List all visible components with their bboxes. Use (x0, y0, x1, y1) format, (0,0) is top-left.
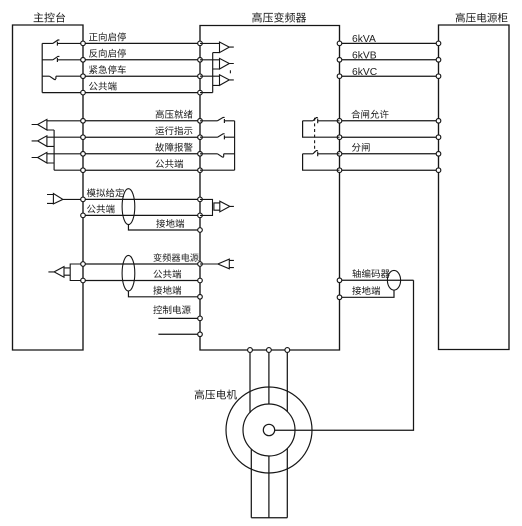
three-phase wire U (249, 350, 251, 413)
wire common to opto return bus (200, 92, 213, 94)
wire 高压就绪 inverter to console (83, 120, 200, 122)
wire common to relay bus (200, 169, 235, 171)
relay contact 高压就绪 (200, 117, 235, 123)
three-phase wire W (286, 350, 288, 412)
label 模拟给定 (87, 188, 124, 197)
node 运行指示 at inverter edge (198, 135, 203, 140)
label 运行指示 (155, 126, 192, 135)
interlock loop 2 (303, 154, 340, 170)
node 反向启停 at inverter edge (198, 58, 203, 63)
wire common 公共端 inside console (42, 92, 83, 94)
wire interlock row y=153.8 (340, 153, 439, 155)
node 6kVB cabinet (436, 58, 441, 63)
wire 紧急停车 console to inverter (83, 75, 200, 77)
wire 轴编码器 (340, 279, 414, 281)
label 高压变频器 (252, 12, 306, 22)
opto receiver triangle row2 (200, 58, 234, 69)
console bus for start/stop contacts (41, 43, 43, 92)
node 公共端 at console edge (81, 168, 86, 173)
label 合闸允许 (351, 110, 388, 119)
label 分闸 (352, 143, 370, 152)
node interlock cabinet y=153.8 (436, 152, 441, 157)
contact switch for 正向启停 (42, 40, 83, 46)
label 故障报警 (155, 143, 192, 152)
shield oval encoder cable (387, 270, 400, 290)
shield drain wire to ground (128, 224, 200, 230)
node 模拟给定 console (81, 197, 86, 202)
node 公共端 analog inverter (198, 213, 203, 218)
node 接地端 power (198, 295, 203, 300)
label 高压就绪 (156, 110, 193, 119)
mechanical link dashed line (314, 118, 316, 152)
node 控制电源 1 (198, 316, 203, 321)
node 高压就绪 at inverter edge (198, 119, 203, 124)
label 公共端 (156, 159, 184, 168)
console box 主控台 (13, 25, 84, 350)
label 接地端 encoder (352, 286, 380, 295)
wire 公共端 analog (83, 214, 200, 216)
wire 公共端 console to inverter (83, 92, 200, 94)
encoder drain wire (340, 290, 395, 297)
label 接地端 power (153, 286, 181, 295)
node 6kVA inverter (337, 41, 342, 46)
wire 变频器电源 (83, 263, 200, 265)
motor shaft hub circle (263, 424, 274, 435)
power source symbol in inverter (200, 259, 234, 269)
node 紧急停车 at inverter edge (198, 74, 203, 79)
node interlock cabinet y=137.2 (436, 135, 441, 140)
wire 模拟给定 (83, 198, 200, 200)
status opto receiver triangle 运行指示 (32, 136, 83, 147)
wire interlock row y=170.2 (340, 169, 439, 171)
node 运行指示 at console edge (81, 135, 86, 140)
node 6kVA cabinet (436, 41, 441, 46)
node 6kVB inverter (337, 58, 342, 63)
node 轴编码器 (337, 278, 342, 283)
shield drain wire power (128, 291, 200, 297)
node interlock inverter y=153.8 (337, 152, 342, 157)
node 变频器电源 console (81, 262, 86, 267)
node 公共端 analog console (81, 213, 86, 218)
motor base right line (286, 449, 288, 518)
inverter box 高压变频器 (200, 26, 340, 351)
wire 6kVC (340, 75, 439, 77)
power-cabinet box 高压电源柜 (439, 25, 510, 350)
node 紧急停车 at console edge (81, 74, 86, 79)
wire interlock row y=120.8 (340, 120, 439, 122)
label 公共端 (89, 82, 117, 91)
node 公共端 power console (81, 278, 86, 283)
motor base left line (250, 449, 252, 518)
node 控制电源 2 (198, 332, 203, 337)
opto return bus group1 (212, 53, 214, 93)
svg-text:6kVB: 6kVB (352, 51, 377, 62)
svg-text:6kVC: 6kVC (352, 67, 378, 78)
three-phase wire V (268, 350, 270, 404)
relay contact 运行指示 (200, 134, 235, 140)
analog driver amp in console (47, 194, 83, 204)
status opto receiver triangle 故障报警 (32, 152, 83, 163)
label 紧急停车 (89, 65, 126, 74)
wire 正向启停 console to inverter (83, 42, 200, 44)
wire 运行指示 inverter to console (83, 136, 200, 138)
node 模拟给定 inverter (198, 197, 203, 202)
node 公共端 at inverter edge (198, 168, 203, 173)
node 故障报警 at inverter edge (198, 152, 203, 157)
contact switch (NC) for 紧急停车 (42, 76, 83, 79)
motor base bottom line (251, 517, 287, 519)
label 公共端 power (154, 270, 182, 279)
node interlock inverter y=120.8 (337, 119, 342, 124)
console status opto return bus (53, 130, 55, 170)
label 反向启停 (89, 49, 126, 58)
motor base center line (268, 456, 270, 518)
node interlock cabinet y=170.2 (436, 168, 441, 173)
node phase W (285, 348, 290, 353)
shield oval power cable (122, 255, 135, 291)
label 变频器电源 (154, 253, 199, 262)
svg-text:6kVA: 6kVA (352, 34, 376, 45)
node 变频器电源 inverter (198, 262, 203, 267)
encoder cable run to motor (275, 280, 414, 430)
label 正向启停 (89, 32, 126, 41)
tick mark near opto row3 (229, 70, 231, 73)
wire 控制电源 line2 (158, 333, 200, 335)
node 公共端 power inverter (198, 278, 203, 283)
wire 反向启停 console to inverter (83, 59, 200, 61)
label 轴编码器 (352, 269, 389, 278)
wire common 公共端 console side (54, 169, 83, 171)
label 高压电机 (195, 390, 237, 400)
opto receiver triangle row3 (200, 75, 234, 86)
node 故障报警 at console edge (81, 152, 86, 157)
label 高压电源柜 (456, 13, 508, 23)
interlock loop 1 (303, 121, 340, 137)
label 公共端 analog (87, 204, 115, 213)
node 6kVC inverter (337, 74, 342, 79)
interlock contact 分闸 (303, 151, 340, 157)
node 正向启停 at console edge (81, 41, 86, 46)
wire 6kVA (340, 42, 439, 44)
node 正向启停 at inverter edge (198, 41, 203, 46)
node interlock inverter y=137.2 (337, 135, 342, 140)
relay contact (NC) 故障报警 (200, 154, 235, 157)
label 接地端 analog (156, 219, 184, 228)
interlock contact 合闸允许 (303, 118, 340, 124)
wire 故障报警 inverter to console (83, 153, 200, 155)
node 公共端 at inverter edge (198, 90, 203, 95)
wire 公共端 power (83, 280, 200, 282)
wire 6kVB (340, 59, 439, 61)
power receiver in console (48, 264, 83, 281)
node 接地端 analog (198, 228, 203, 233)
status opto receiver triangle 高压就绪 (32, 119, 83, 130)
contact switch for 反向启停 (42, 56, 83, 62)
node 高压就绪 at console edge (81, 119, 86, 124)
node interlock cabinet y=120.8 (436, 119, 441, 124)
node interlock inverter y=170.2 (337, 168, 342, 173)
opto receiver triangle row1 (200, 42, 234, 53)
motor outer circle (226, 387, 312, 473)
node 6kVC cabinet (436, 74, 441, 79)
relay contact bus group2 (234, 121, 236, 170)
label 控制电源 (153, 305, 190, 314)
wire 控制电源 line1 (158, 317, 200, 319)
node phase V (267, 348, 272, 353)
node 接地端 encoder (337, 295, 342, 300)
motor inner circle (243, 404, 295, 456)
wire 公共端 inverter to console (83, 169, 200, 171)
node 反向启停 at console edge (81, 58, 86, 63)
shield oval analog cable (122, 189, 135, 225)
node 公共端 at console edge (81, 90, 86, 95)
wire interlock row y=137.2 (340, 136, 439, 138)
node phase U (248, 348, 253, 353)
analog receiver in inverter (200, 199, 234, 215)
label 主控台 (34, 12, 66, 22)
